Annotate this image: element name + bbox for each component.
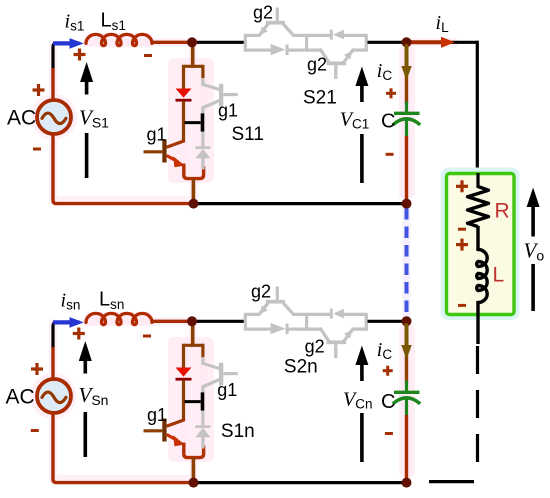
label C (module 1) <box>381 110 395 132</box>
IGBT T1 (red) of S11 <box>144 140 185 168</box>
capacitor current arrow (module 1) <box>401 45 411 81</box>
svg-text:g2: g2 <box>307 55 327 75</box>
label V_Sn <box>79 383 109 408</box>
wire AC source lower lead and bottom rail left (module 1) <box>53 134 190 204</box>
switch S21 right connector <box>365 35 368 52</box>
label g2 upper (module 1) <box>253 2 273 22</box>
wire capacitor branch upper (module n) <box>405 323 408 383</box>
switch S11 gray rail bottom <box>201 158 204 170</box>
switch S2n right connector <box>365 314 368 331</box>
plus sign AC (module 1) <box>33 84 45 96</box>
switch S1n gray rail lower <box>201 411 204 426</box>
switch S21 left connector <box>244 35 247 52</box>
minus sign AC (module n) <box>31 429 39 432</box>
label S21 <box>303 88 337 109</box>
switch S21 middle rung <box>305 35 308 50</box>
diode D2 (gray) of S1n <box>195 425 210 437</box>
label g1 (red IGBT gate, module n) <box>147 405 167 425</box>
label g2 lower (module n) <box>305 336 325 356</box>
svg-text:g1: g1 <box>218 101 238 121</box>
plus sign after source arrow (module 1) <box>74 49 86 61</box>
diode D4 (gray) of S21 bottom rail <box>271 44 289 55</box>
capacitor voltage arrow V_Cn / current i_C (module n) <box>355 346 368 463</box>
svg-text:R: R <box>495 200 510 223</box>
svg-text:g1: g1 <box>147 405 167 425</box>
node capacitor top (module n) <box>402 316 412 326</box>
node capacitor bottom (module 1) <box>402 199 412 209</box>
wire top rail node1 to load corner <box>407 41 479 44</box>
wire bottom rail (module n) <box>198 481 403 484</box>
label Vo <box>524 239 545 264</box>
plus sign load top <box>456 180 468 192</box>
svg-text:g2: g2 <box>305 336 325 356</box>
minus sign capacitor (module n) <box>385 432 393 435</box>
svg-text:g1: g1 <box>217 380 237 400</box>
label L <box>493 263 505 286</box>
label g1 (red IGBT gate, module 1) <box>147 125 167 145</box>
label V_C1 <box>340 108 369 131</box>
label AC (module n) <box>6 386 35 409</box>
diode D1 (red) of S1n <box>176 368 192 381</box>
label R <box>495 200 510 223</box>
wire capacitor branch lower (module n) <box>405 415 408 481</box>
label L_s1 <box>101 10 126 33</box>
switch S11 left rail upper <box>182 65 185 90</box>
wire capacitor branch lower (module 1) <box>405 136 408 202</box>
svg-text:g2: g2 <box>251 282 271 302</box>
svg-text:AC: AC <box>7 107 36 130</box>
plus sign capacitor (module 1) <box>386 88 396 98</box>
label C (module n) <box>381 391 395 413</box>
svg-text:g2: g2 <box>253 2 273 22</box>
diode D1 (red) of S11 <box>176 89 192 102</box>
switch S1n emitter wire and bottom U <box>184 443 204 482</box>
label g2 lower (module 1) <box>307 55 327 75</box>
label S1n <box>221 421 255 442</box>
wire AC source upper lead (module 1) <box>51 68 54 102</box>
label L_sn <box>99 289 124 312</box>
plus sign capacitor (module n) <box>383 366 393 376</box>
svg-text:C: C <box>381 391 395 413</box>
plus sign after source arrow (module n) <box>73 328 85 340</box>
resistor R <box>468 187 489 227</box>
minus sign after inductor (module 1) <box>144 54 152 57</box>
label iL <box>436 12 450 35</box>
IGBT T4 (gray) of S2n with gate g2 <box>321 329 353 358</box>
wire S21 to capacitor node <box>368 41 404 44</box>
diode D2 (gray) of S11 <box>195 146 210 158</box>
node capacitor bottom (module n) <box>402 478 412 488</box>
svg-text:S2n: S2n <box>284 357 318 378</box>
label V_S1 <box>79 106 109 131</box>
label i_s1 <box>65 11 85 34</box>
pink wash behind switch branches (decorative) <box>85 33 415 477</box>
wire bottom rail (module 1) <box>198 202 403 205</box>
plus sign above L <box>456 239 468 251</box>
switch S1n left rail lower <box>182 380 185 420</box>
svg-text:C: C <box>381 110 395 132</box>
wire right vertical into load <box>476 41 479 176</box>
svg-text:AC: AC <box>6 386 35 409</box>
dashed blue link between module 1 and module n <box>405 208 409 319</box>
switch S1n branch stem <box>184 323 204 347</box>
switch S11 branch stem <box>184 44 204 68</box>
switch S21 top rail segments <box>244 34 368 37</box>
switch S11 emitter wire and bottom U <box>184 164 204 203</box>
label g1 (gray IGBT gate, module 1) <box>218 101 238 121</box>
capacitor current arrow (module n) <box>401 324 411 360</box>
diode D3 (gray) of S21 top rail <box>330 30 344 40</box>
switch S1n gray rail bottom <box>201 437 204 449</box>
gate bar (black) of S11 <box>185 113 205 131</box>
switch S2n left connector <box>244 314 247 331</box>
label i_C (module n) <box>377 339 393 362</box>
voltage arrow Vo <box>527 188 540 312</box>
wire top rail (module 1) <box>151 41 246 44</box>
svg-text:S1n: S1n <box>221 421 255 442</box>
voltage arrow V_Sn <box>79 341 92 457</box>
switch S21 bottom rail segments <box>244 48 368 51</box>
switch S1n right rail red top <box>201 344 204 358</box>
wire into resistor <box>476 173 479 188</box>
IGBT T3 (gray) of S2n with gate g2 <box>260 287 294 315</box>
IGBT T2 (gray) of S1n <box>203 357 238 394</box>
halo glow under blue dashed link (decorative) <box>403 207 411 319</box>
load box (R-L load) <box>447 174 515 315</box>
voltage arrow V_S1 <box>80 62 93 178</box>
minus sign AC (module 1) <box>33 148 41 151</box>
label g2 upper (module n) <box>251 282 271 302</box>
capacitor voltage arrow V_C1 / current i_C (module 1) <box>355 67 368 184</box>
svg-text:g1: g1 <box>147 125 167 145</box>
wire AC source top corner (module n) <box>53 322 80 350</box>
diode D4 (gray) of S2n bottom rail <box>271 323 289 334</box>
wire S2n to capacitor node <box>368 320 404 323</box>
switch S11 right rail red top <box>201 65 204 79</box>
label g1 (gray IGBT gate, module n) <box>217 380 237 400</box>
switch S2n bottom rail segments <box>244 327 368 330</box>
IGBT T2 (gray) of S11 <box>203 78 238 115</box>
node top-left of module n <box>187 316 197 326</box>
minus sign under L <box>458 304 466 307</box>
capacitor C (module n) <box>393 381 420 417</box>
load box cyan halo <box>441 168 520 321</box>
IGBT T4 (gray) of S21 with gate g2 <box>321 50 353 79</box>
current arrow i_sn (blue) <box>53 317 84 328</box>
minus sign under R <box>458 228 466 231</box>
node bottom-left (module n) <box>189 478 199 488</box>
svg-text:L: L <box>493 263 505 286</box>
wire AC source lower lead and bottom rail left (module n) <box>53 413 190 483</box>
switch S2n top rail segments <box>244 313 368 316</box>
wire inductor to box bottom <box>476 301 479 344</box>
wire top rail (module n) <box>151 320 246 323</box>
IGBT T1 (red) of S1n <box>144 419 185 447</box>
IGBT T3 (gray) of S21 with gate g2 <box>260 8 294 36</box>
inductor L_s1 <box>86 34 152 45</box>
minus sign capacitor (module 1) <box>386 153 394 156</box>
node bottom-left (module 1) <box>189 199 199 209</box>
switch S2n middle rung <box>305 314 308 329</box>
dashed return path from load to module n <box>429 346 478 482</box>
switch S11 left rail lower <box>182 101 185 141</box>
inductor L (load) <box>477 250 487 303</box>
minus sign after inductor (module n) <box>143 335 151 338</box>
current arrow iL <box>409 37 455 48</box>
wire AC source upper lead (module n) <box>51 347 54 381</box>
wire resistor to inductor <box>476 226 479 251</box>
capacitor C (module 1) <box>393 102 420 138</box>
halo glow under red wiring (decorative) <box>34 42 455 481</box>
label AC (module 1) <box>7 107 36 130</box>
AC source V_Sn <box>37 379 71 413</box>
label i_C (module 1) <box>377 60 393 83</box>
gate bar (black) of S1n <box>185 392 205 410</box>
switch S11 gray rail lower <box>201 132 204 147</box>
label V_Cn <box>343 389 372 412</box>
wire capacitor branch upper (module 1) <box>405 44 408 104</box>
AC source V_S1 <box>37 100 71 134</box>
inductor L_sn <box>86 313 152 324</box>
svg-text:S11: S11 <box>232 124 264 145</box>
label S11 <box>232 124 264 145</box>
label i_sn <box>61 290 81 313</box>
label S2n <box>284 357 318 378</box>
wire AC source top corner (module 1) <box>53 43 80 71</box>
plus sign AC (module n) <box>31 363 43 375</box>
node top-left of module 1 <box>187 37 197 47</box>
svg-text:S21: S21 <box>303 88 337 109</box>
node capacitor top (module 1) <box>402 37 412 47</box>
diode D3 (gray) of S2n top rail <box>330 309 344 319</box>
current arrow i_s1 (blue) <box>53 38 84 49</box>
switch S1n left rail upper <box>182 344 185 369</box>
